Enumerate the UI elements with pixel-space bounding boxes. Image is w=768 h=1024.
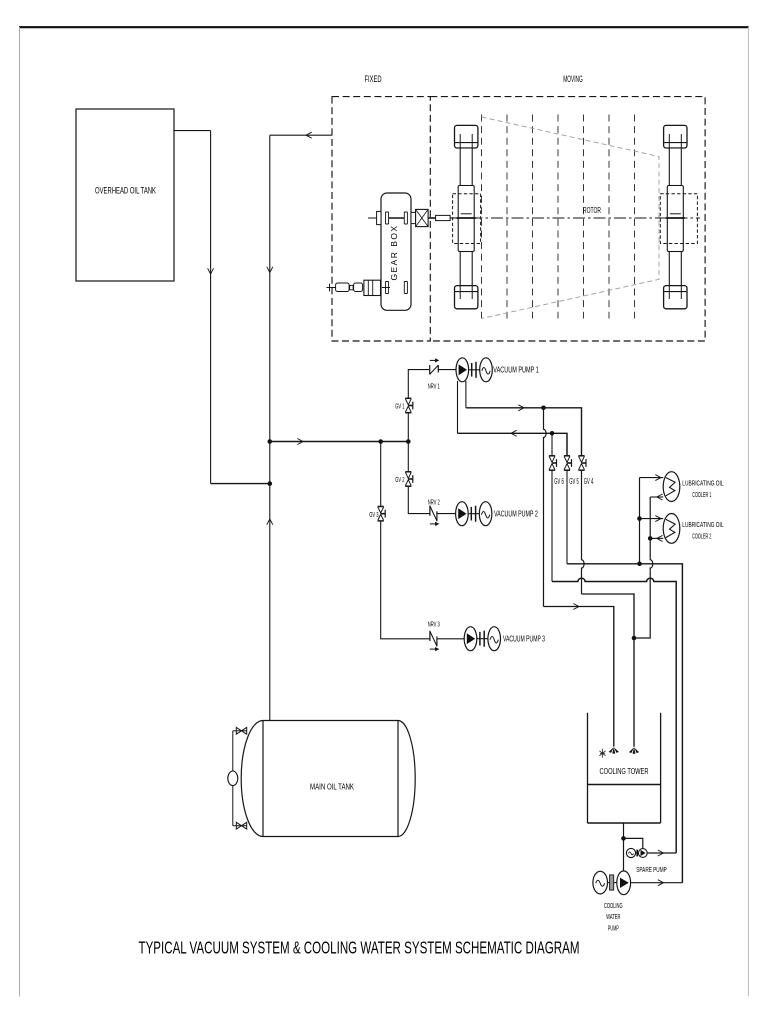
output shaft coupling block xyxy=(416,209,429,226)
svg-text:GV 4: GV 4 xyxy=(584,477,594,486)
level gauge upper tap + valve xyxy=(233,730,247,732)
node J5: branch to GV6 xyxy=(550,431,555,436)
svg-text:NRV 2: NRV 2 xyxy=(428,497,440,506)
wire: y594 header to tower spray 2 xyxy=(582,594,635,747)
level gauge lower tap + valve xyxy=(233,825,247,827)
shaft through journal xyxy=(666,217,685,219)
wire: down-comer vertical from overhead tank xyxy=(210,131,212,484)
node J4: branch to tower return xyxy=(541,406,546,411)
svg-text:COOLING TOWER: COOLING TOWER xyxy=(600,767,649,776)
page frame top border xyxy=(19,26,749,28)
valve GV 4 xyxy=(578,455,584,457)
page frame left border xyxy=(19,27,21,997)
shaft through journal xyxy=(457,217,476,219)
wire: J6 down to valve GV3 xyxy=(380,442,382,507)
wire: tower return line A (from J4) with pipe hop xyxy=(544,408,547,607)
svg-text:COOLER 2: COOLER 2 xyxy=(692,532,711,541)
node J6: branch to GV3 xyxy=(378,439,383,444)
svg-text:GEAR BOX: GEAR BOX xyxy=(389,225,399,281)
wire: J3 down to valve GV2 xyxy=(407,442,409,472)
wire: cold water header y433 to GV5 xyxy=(458,433,568,456)
valve GV 1 xyxy=(405,397,411,399)
bearing housing hidden outline (dashed) xyxy=(660,194,697,244)
vacuum pump 3 (pump + motor) xyxy=(464,627,477,651)
wire: overhead tank outlet to down-comer xyxy=(174,130,211,132)
wire: branch to spare pump xyxy=(624,838,643,848)
wire: pump1 warm water outlet pipe (right) xyxy=(465,381,467,408)
svg-text:COOLER 1: COOLER 1 xyxy=(692,490,711,499)
node J1: oil line junction xyxy=(268,481,273,486)
valve GV 2 xyxy=(405,471,411,473)
wire: tower outlet down-comer xyxy=(623,823,625,871)
valve GV 5 xyxy=(564,455,570,457)
valve GV 6 xyxy=(549,455,555,457)
svg-text:TYPICAL VACUUM SYSTEM & COOLIN: TYPICAL VACUUM SYSTEM & COOLING WATER SY… xyxy=(139,938,580,958)
svg-text:WATER: WATER xyxy=(606,912,620,921)
moving enclosure (dashed box) xyxy=(430,97,705,341)
input shaft stepped coupling block xyxy=(364,280,381,295)
vacuum pump 2 (pump + motor) xyxy=(456,502,469,526)
rotor shaft centerline (dash-dot) xyxy=(368,217,700,219)
bearing pedestal bottom cap xyxy=(664,286,687,309)
bearing housing hidden outline (dashed) xyxy=(453,194,481,244)
wire: cooler 1 supply xyxy=(640,477,664,479)
wire: GV1 up and over to NRV1 xyxy=(408,370,429,399)
wire: vacuum suction horizontal from rotor enclosure xyxy=(270,134,332,136)
wire: spare pump discharge to riser xyxy=(647,852,676,854)
svg-text:GV 1: GV 1 xyxy=(395,402,404,411)
svg-text:VACUUM PUMP 3: VACUUM PUMP 3 xyxy=(503,634,545,643)
check valve NRV 1 xyxy=(429,365,431,375)
wire: cooler return riser x650 (hops y563) down to J7 xyxy=(634,497,653,638)
rotor cone outline (gray dashed) xyxy=(482,117,660,319)
svg-text:GV 6: GV 6 xyxy=(554,477,564,486)
cooling tower left wall xyxy=(587,713,589,823)
main oil tank (horizontal cylinder) xyxy=(263,721,398,837)
svg-text:LUBRICATING OIL: LUBRICATING OIL xyxy=(682,520,723,529)
bearing upper column xyxy=(460,148,472,186)
bearing journal block xyxy=(667,186,683,252)
wire: GV4 down (hops y563) to y594 header xyxy=(582,470,585,594)
bearing upper column xyxy=(669,148,681,186)
cooling tower right wall xyxy=(660,713,662,823)
page frame right border xyxy=(747,27,749,996)
rotor bearing pedestal top cap xyxy=(455,125,478,148)
node J2: suction header junction xyxy=(268,439,273,444)
spare pump (motor + pump) xyxy=(626,848,635,857)
overhead oil tank xyxy=(76,109,174,281)
svg-text:GV 3: GV 3 xyxy=(369,510,378,519)
svg-text:LUBRICATING OIL: LUBRICATING OIL xyxy=(682,478,723,487)
wire: pump1 cooling inlet pipe (left) xyxy=(457,381,459,433)
fan/spray asterisk symbol xyxy=(599,749,605,758)
gear box input shaft (bottom) centerline xyxy=(327,287,391,289)
svg-text:ROTOR: ROTOR xyxy=(583,205,601,215)
wire: J3 up to valve GV1 xyxy=(407,413,409,442)
bearing journal block xyxy=(458,186,474,252)
output shaft spacer tube xyxy=(428,217,436,219)
wire: NRV3 to vacuum pump 3 xyxy=(437,638,464,640)
spray nozzle 2 xyxy=(629,747,639,753)
wire: down-comer elbow into junction J1 xyxy=(211,483,270,485)
rotor bearing pedestal top cap xyxy=(664,125,687,148)
node J10: cooler 2 return joins return riser xyxy=(648,536,653,541)
svg-text:GV 5: GV 5 xyxy=(569,477,579,486)
vacuum pump 1 (pump + motor) xyxy=(456,358,469,382)
svg-text:MAIN OIL TANK: MAIN OIL TANK xyxy=(310,782,354,791)
wire: y563 header (cooler supply) to CWP riser xyxy=(567,564,682,883)
level gauge sight glass xyxy=(228,771,238,786)
wire: GV5 down to y563 header xyxy=(566,470,568,563)
lubricating oil cooler 2 xyxy=(663,514,680,544)
wire: cooler supply riser x639.5 xyxy=(639,478,641,564)
svg-text:NRV 1: NRV 1 xyxy=(428,382,440,391)
bearing pedestal bottom cap xyxy=(455,286,478,309)
wire: CWP discharge to riser xyxy=(631,882,682,884)
svg-text:OVERHEAD OIL TANK: OVERHEAD OIL TANK xyxy=(95,186,156,196)
wire: header corner down to valve GV5 xyxy=(566,433,568,455)
spray nozzle 1 xyxy=(609,747,619,753)
node J8: riser lands on y563 header xyxy=(637,562,642,567)
node J9: branch to cooler 2 supply xyxy=(637,516,642,521)
node J3: GV1/GV2 branch xyxy=(406,439,411,444)
svg-text:COOLING: COOLING xyxy=(604,901,623,910)
fixed enclosure (dashed box) xyxy=(332,97,430,341)
gear box output shaft (top) details xyxy=(372,217,377,219)
lubricating oil cooler 1 xyxy=(663,472,680,502)
svg-text:PUMP: PUMP xyxy=(608,924,619,933)
bearing lower column xyxy=(669,252,681,288)
bearing lower column xyxy=(460,252,472,288)
wire: GV2 down and over to NRV2 xyxy=(408,486,430,513)
check valve NRV 2 xyxy=(429,506,431,516)
input shaft coupling cylinders xyxy=(329,284,331,292)
node J7: cooler return joins spray line xyxy=(632,636,637,641)
wire: cooler 2 return xyxy=(650,537,663,539)
wire: NRV2 to vacuum pump 2 xyxy=(437,513,456,515)
wire: GV6 down to y581 header xyxy=(551,470,553,581)
svg-text:GV 2: GV 2 xyxy=(395,475,404,484)
wire: GV3 down to pump 3 suction run xyxy=(381,521,430,639)
wire: cooler 2 supply xyxy=(640,518,664,520)
check valve NRV 3 xyxy=(429,631,431,641)
svg-text:FIXED: FIXED xyxy=(365,74,382,84)
wire: cooler 1 return xyxy=(650,496,663,498)
wire: y581 header to spare pump riser (with hops) xyxy=(552,578,676,853)
coupling flange at gearbox right xyxy=(411,212,416,223)
svg-text:VACUUM PUMP 2: VACUUM PUMP 2 xyxy=(494,509,538,518)
cooling tower bottom xyxy=(588,822,661,824)
rotor stage lines (dark dashed verticals) xyxy=(481,115,483,319)
cooling water pump (motor + coupling + pump) xyxy=(593,871,608,894)
valve GV 3 xyxy=(378,506,384,508)
gear box xyxy=(381,193,411,310)
wire: NRV1 to vacuum pump 1 xyxy=(438,369,456,371)
wire: suction header J2 to GV1/GV2 column xyxy=(270,441,409,443)
node J11: spare pump branch xyxy=(621,836,626,841)
cooling tower basin top line xyxy=(588,784,661,786)
wire: warm water header y407 to GV4 xyxy=(466,408,582,456)
svg-text:NRV 3: NRV 3 xyxy=(428,620,440,629)
svg-text:VACUUM PUMP 1: VACUUM PUMP 1 xyxy=(493,365,539,374)
wire: main vertical header (rotor suction / tank vent) xyxy=(269,135,271,720)
svg-text:MOVING: MOVING xyxy=(563,74,583,84)
svg-text:SPARE PUMP: SPARE PUMP xyxy=(636,865,667,874)
level gauge standpipe xyxy=(232,731,234,826)
wire: J5 down to valve GV6 xyxy=(551,433,553,455)
